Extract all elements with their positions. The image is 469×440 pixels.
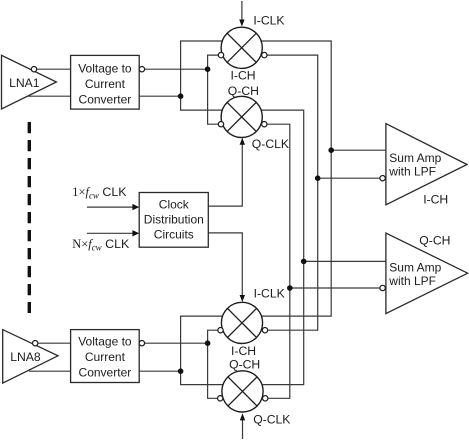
svg-text:LNA1: LNA1 (9, 76, 40, 90)
svg-text:Sum Amp: Sum Amp (389, 260, 441, 274)
svg-text:with LPF: with LPF (388, 274, 436, 288)
svg-text:Q-CLK: Q-CLK (252, 137, 289, 151)
svg-text:I-CLK: I-CLK (254, 287, 285, 301)
svg-text:I-CLK: I-CLK (253, 13, 284, 27)
svg-text:Converter: Converter (79, 365, 132, 379)
svg-text:I-CH: I-CH (231, 344, 256, 358)
svg-text:Converter: Converter (79, 92, 132, 106)
svg-text:Circuits: Circuits (154, 227, 194, 241)
svg-text:I-CH: I-CH (423, 193, 448, 207)
svg-text:Q-CH: Q-CH (419, 233, 450, 247)
svg-text:Q-CH: Q-CH (228, 84, 259, 98)
svg-text:Voltage to: Voltage to (78, 61, 132, 75)
svg-text:Voltage to: Voltage to (78, 335, 132, 349)
svg-text:Q-CLK: Q-CLK (253, 413, 290, 427)
svg-text:1×fcw CLK: 1×fcw CLK (72, 185, 127, 201)
svg-text:with LPF: with LPF (388, 165, 436, 179)
svg-text:Current: Current (85, 350, 126, 364)
svg-text:LNA8: LNA8 (10, 350, 41, 364)
svg-text:Q-CH: Q-CH (229, 357, 260, 371)
svg-text:Distribution: Distribution (144, 213, 204, 227)
svg-text:Clock: Clock (159, 198, 190, 212)
svg-text:I-CH: I-CH (231, 69, 256, 83)
svg-text:N×fcw CLK: N×fcw CLK (72, 237, 130, 253)
svg-text:Sum Amp: Sum Amp (389, 151, 441, 165)
svg-text:Current: Current (85, 77, 126, 91)
